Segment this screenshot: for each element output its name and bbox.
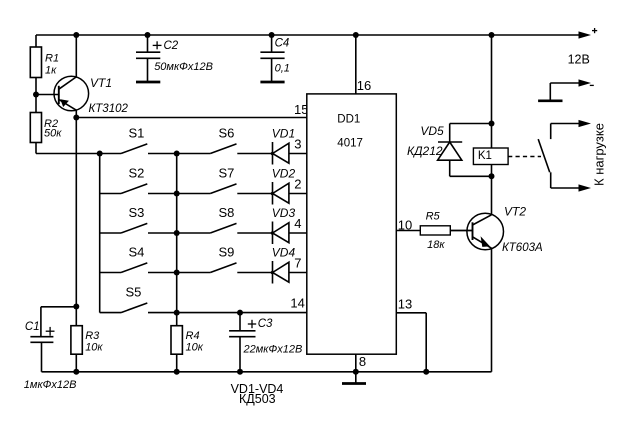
svg-text:10: 10 [398,217,412,232]
svg-text:4: 4 [294,216,301,231]
svg-text:S9: S9 [219,244,235,259]
svg-text:DD1: DD1 [337,113,360,125]
svg-text:S2: S2 [129,165,145,180]
svg-text:R1: R1 [45,53,59,65]
svg-text:8: 8 [359,354,366,369]
svg-text:VT1: VT1 [90,76,112,90]
svg-text:2: 2 [294,177,301,192]
svg-text:R3: R3 [85,330,100,342]
svg-text:C1: C1 [25,321,40,333]
svg-text:VT2: VT2 [504,205,526,219]
svg-text:13: 13 [398,296,412,311]
svg-text:18к: 18к [427,239,445,251]
svg-text:0,1: 0,1 [275,63,290,75]
svg-text:1мкФх12В: 1мкФх12В [24,379,77,391]
svg-text:КТ3102: КТ3102 [89,103,129,115]
svg-text:C2: C2 [164,40,179,52]
svg-text:4017: 4017 [337,137,363,149]
svg-text:VD1: VD1 [272,127,295,141]
svg-text:VD5: VD5 [420,124,444,138]
svg-text:К нагрузке: К нагрузке [592,123,607,186]
svg-text:16: 16 [357,78,371,93]
svg-text:S7: S7 [219,165,235,180]
svg-text:КД212: КД212 [407,144,443,158]
svg-text:50мкФх12В: 50мкФх12В [154,61,213,73]
svg-text:14: 14 [290,295,304,310]
svg-text:10к: 10к [85,342,103,354]
svg-text:S5: S5 [126,284,142,299]
svg-text:12В: 12В [568,53,590,67]
svg-text:10к: 10к [186,342,204,354]
svg-text:R5: R5 [426,211,441,223]
svg-text:R4: R4 [186,330,200,342]
svg-text:1к: 1к [45,65,57,77]
svg-text:S8: S8 [219,205,235,220]
svg-text:C4: C4 [275,38,290,50]
svg-text:S4: S4 [129,244,145,259]
svg-text:VD4: VD4 [272,246,296,260]
svg-text:S1: S1 [129,125,145,140]
svg-text:VD3: VD3 [272,206,296,220]
svg-text:S6: S6 [219,125,235,140]
svg-text:VD2: VD2 [272,167,296,181]
svg-text:K1: K1 [478,150,492,162]
svg-text:КТ603А: КТ603А [502,242,543,254]
svg-text:22мкФх12В: 22мкФх12В [243,344,303,356]
svg-text:C3: C3 [258,318,273,330]
svg-text:7: 7 [294,256,301,271]
svg-text:3: 3 [294,137,301,152]
svg-text:50к: 50к [44,128,62,140]
svg-text:S3: S3 [129,205,145,220]
svg-text:КД503: КД503 [239,392,276,406]
